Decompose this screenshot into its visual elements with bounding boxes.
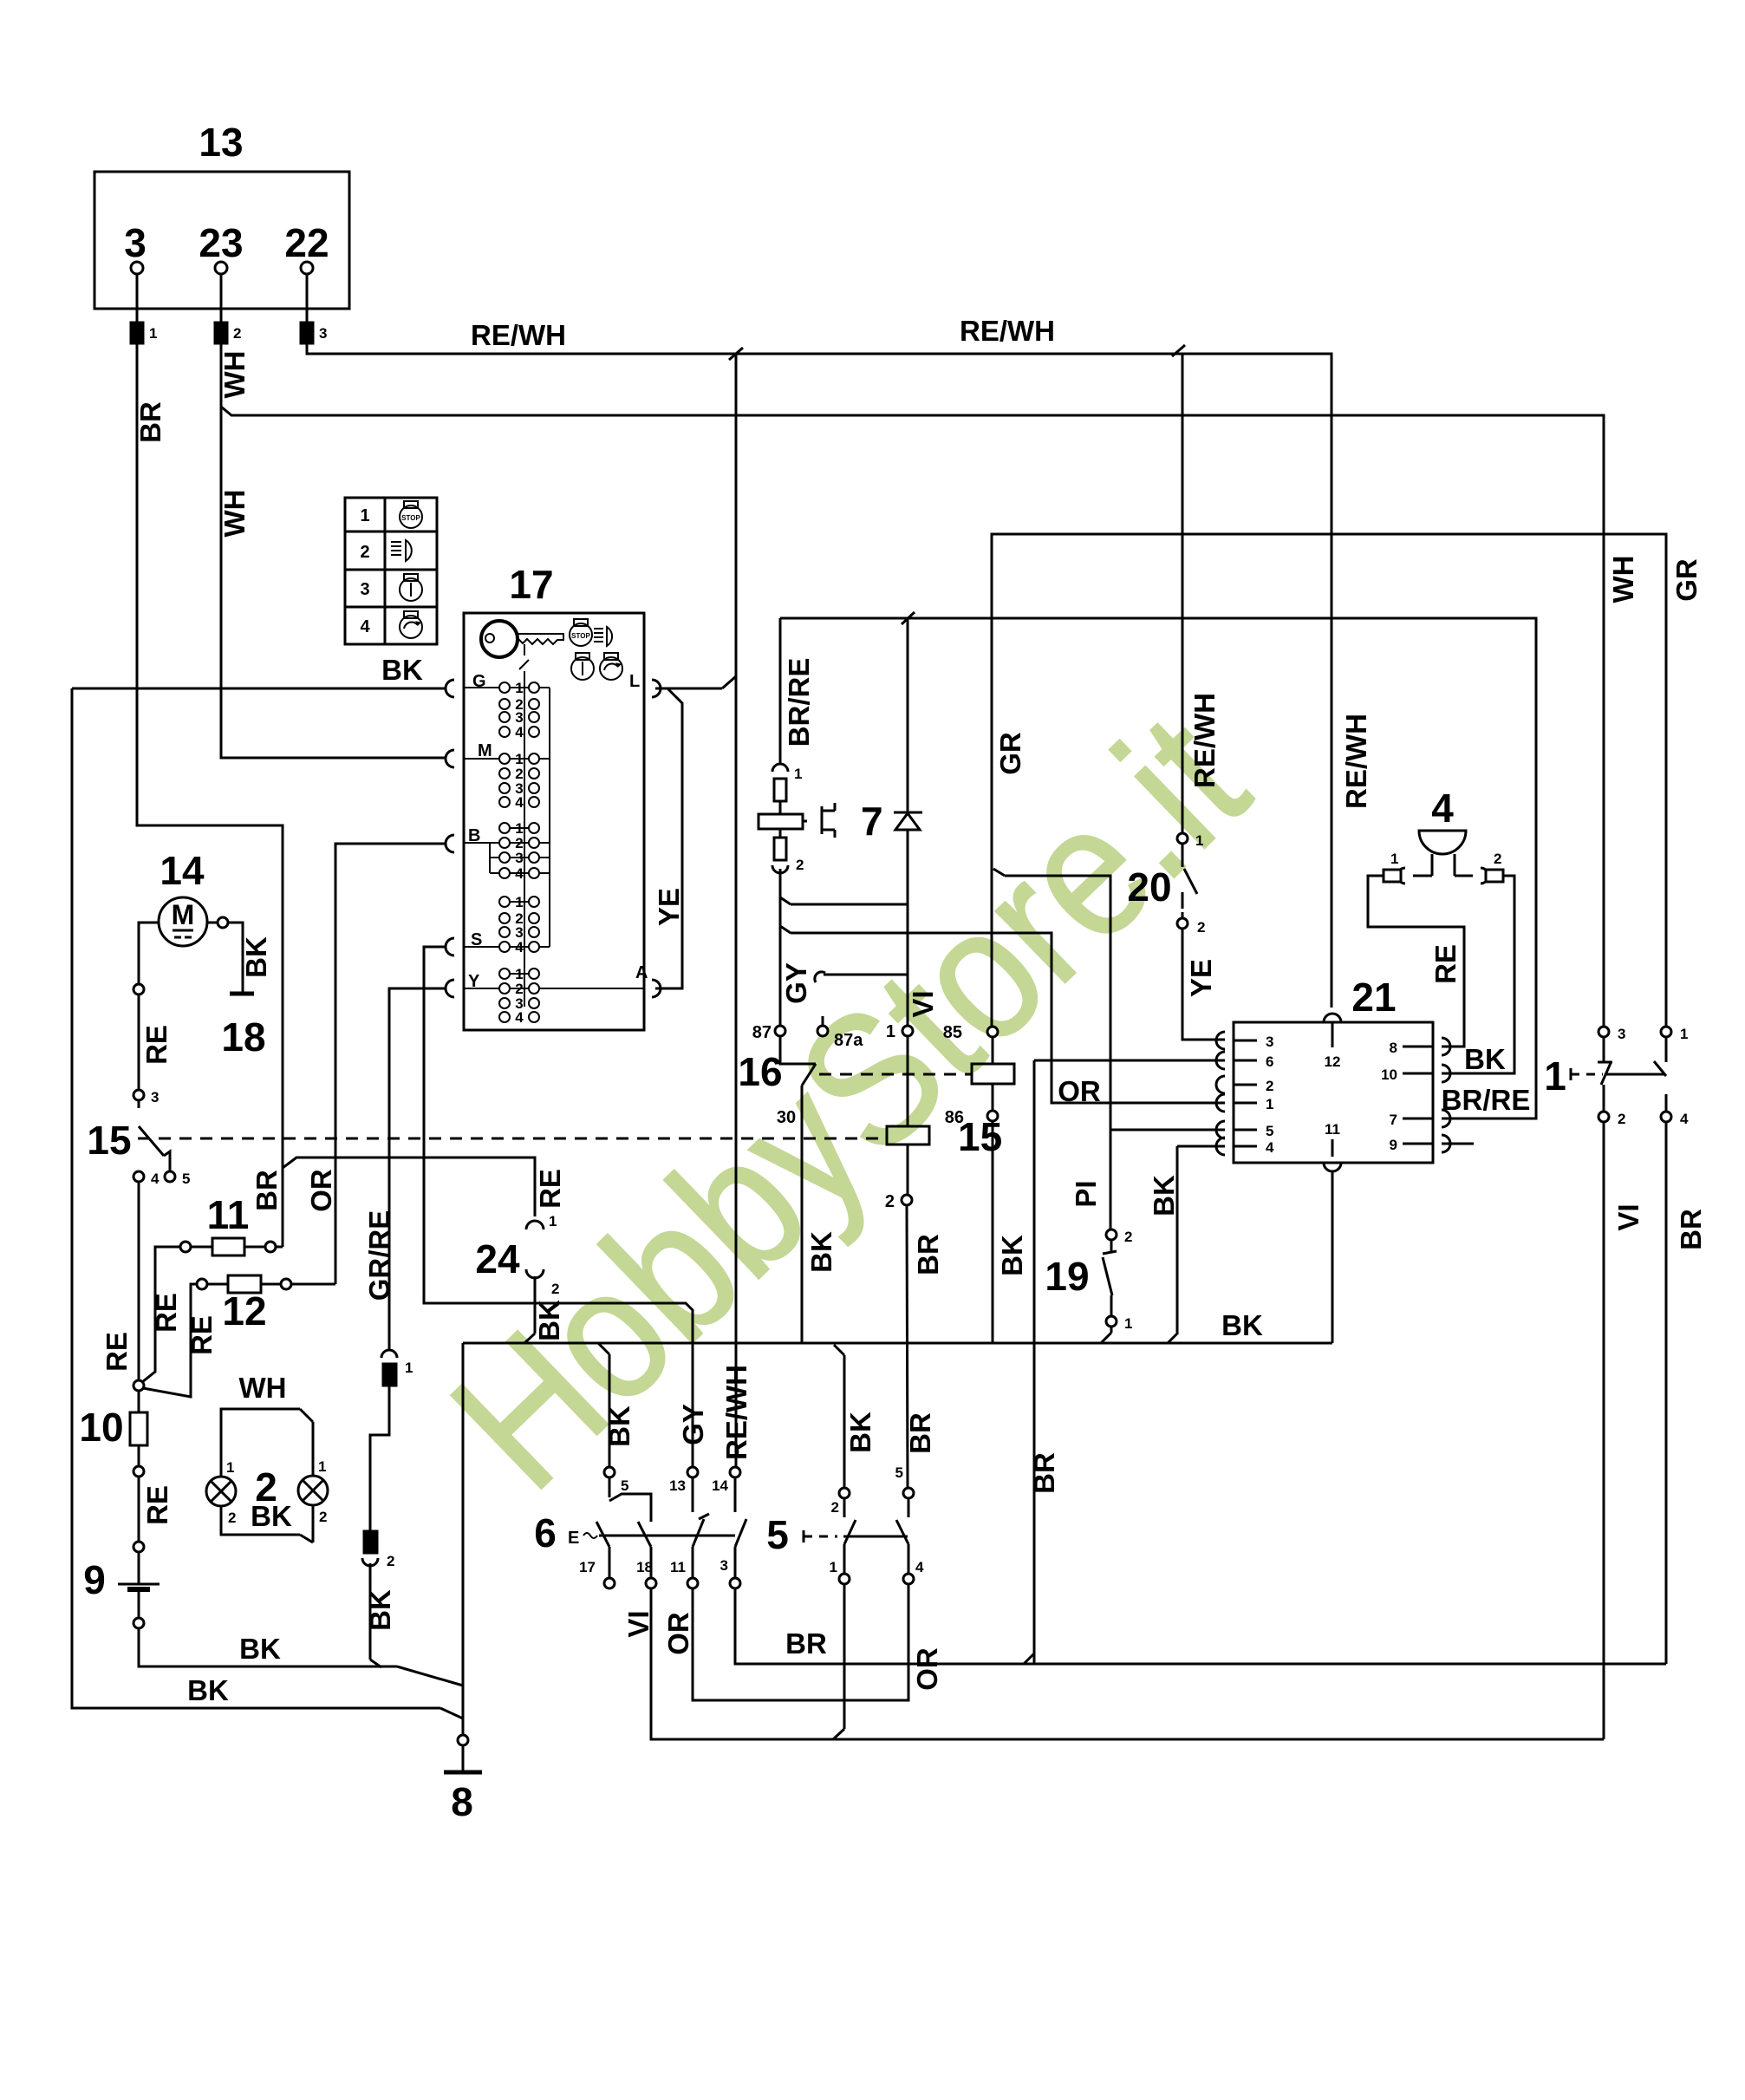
svg-text:2: 2 xyxy=(228,1510,236,1526)
wire GY from relay 7 pin 2 to relay 16 terminal 87 xyxy=(780,869,812,1026)
svg-text:2: 2 xyxy=(1124,1229,1132,1245)
wire BR/RE vertical to relay 7 pin 1 xyxy=(779,618,782,764)
legend icon row 3 oil lamp xyxy=(400,574,422,601)
wire BK from connector 2 to ground bus xyxy=(364,1563,396,1667)
relay 7 coil xyxy=(759,799,883,844)
svg-text:RE/WH: RE/WH xyxy=(1340,714,1372,809)
svg-text:1: 1 xyxy=(794,766,802,782)
svg-text:10: 10 xyxy=(1381,1066,1397,1083)
wire BK branch to switch 6 pin 5 xyxy=(598,1343,635,1467)
svg-text:1: 1 xyxy=(149,325,157,342)
pin 22 of 13 xyxy=(301,262,327,343)
box 21 pin 9 stub xyxy=(1442,1143,1474,1145)
diode xyxy=(894,612,922,830)
svg-text:BK: BK xyxy=(381,654,423,686)
svg-text:WH: WH xyxy=(239,1372,287,1404)
pin 23 of 13 xyxy=(215,262,241,343)
svg-text:11: 11 xyxy=(670,1559,686,1575)
legend box xyxy=(345,498,437,644)
wire RE from motor to switch 15 pin 3 xyxy=(133,923,173,1090)
svg-text:5: 5 xyxy=(766,1512,789,1557)
wire OR from B row to fuse 12 xyxy=(305,844,446,1284)
wire WH branch to switch 1 pin 3 xyxy=(221,407,1639,1027)
wire RE/WH main from pin 3 of 13 to box 21 xyxy=(307,315,1372,1008)
wire branch to diode bottom xyxy=(780,830,908,904)
svg-text:6: 6 xyxy=(1266,1053,1273,1070)
box 17 lamp icons xyxy=(570,619,640,691)
svg-text:30: 30 xyxy=(777,1108,796,1127)
svg-text:OR: OR xyxy=(305,1169,337,1212)
svg-text:BR: BR xyxy=(1028,1452,1060,1494)
relay 7 pin 1 connector xyxy=(772,764,802,814)
svg-text:BR: BR xyxy=(134,401,166,443)
svg-text:15: 15 xyxy=(87,1118,131,1163)
wire BR from relay 15 terminal 2 to switch 5 xyxy=(904,1205,944,1488)
box 21 bottom connector 11 xyxy=(1324,1121,1341,1343)
svg-text:3: 3 xyxy=(360,580,369,599)
svg-text:1: 1 xyxy=(886,1022,895,1041)
svg-text:1: 1 xyxy=(405,1360,413,1376)
svg-text:4: 4 xyxy=(1680,1111,1689,1127)
svg-text:BK: BK xyxy=(533,1300,565,1341)
wire RE from fuse 10 to battery 9 xyxy=(133,1445,173,1583)
svg-text:BK: BK xyxy=(1221,1309,1263,1341)
svg-text:11: 11 xyxy=(207,1192,250,1237)
svg-text:GR: GR xyxy=(994,732,1026,775)
svg-text:OR: OR xyxy=(1058,1075,1101,1107)
relay 7 pin 2 connector xyxy=(772,829,804,873)
wire BK branch to switch 5 pin 2 xyxy=(834,1345,876,1488)
svg-text:BR: BR xyxy=(1675,1209,1707,1250)
horn 4 pin 1 connector xyxy=(1384,851,1432,884)
svg-text:85: 85 xyxy=(943,1023,962,1042)
svg-text:4: 4 xyxy=(515,724,524,740)
svg-text:1: 1 xyxy=(318,1458,326,1475)
control unit box 21 xyxy=(1234,975,1433,1163)
wire BR/RE bus from relay 7 to box 21 pin 7 xyxy=(780,618,1536,1118)
wire BK from box 21 pin 4 to bus xyxy=(1148,1146,1225,1343)
fuse 12 xyxy=(197,1275,335,1334)
svg-text:2: 2 xyxy=(1618,1111,1625,1127)
switch 5 pole 2-1 xyxy=(830,1488,856,1584)
wire from S row to switch 6 pin 13 xyxy=(424,947,709,1467)
box 17 pin circles xyxy=(499,680,539,1026)
relay 16 switch arm xyxy=(738,1036,837,1343)
wire BK from motor to ground 18 xyxy=(207,917,272,992)
legend icon row 4 charge lamp xyxy=(400,611,422,638)
box 21 top connector 12 xyxy=(1324,1014,1341,1070)
svg-text:BK: BK xyxy=(239,1633,281,1665)
svg-text:BK: BK xyxy=(805,1231,837,1273)
svg-text:6: 6 xyxy=(534,1510,557,1555)
fuse 10 xyxy=(79,1405,147,1450)
svg-text:VI: VI xyxy=(1612,1203,1644,1230)
legend icon row 2 headlight xyxy=(391,540,412,561)
svg-text:14: 14 xyxy=(712,1477,728,1494)
svg-text:3: 3 xyxy=(319,325,327,342)
key switch box 17 xyxy=(464,562,644,1030)
svg-text:WH: WH xyxy=(218,490,251,538)
svg-text:1: 1 xyxy=(1124,1315,1132,1332)
switch 20 xyxy=(1127,832,1205,936)
svg-text:18: 18 xyxy=(636,1559,653,1575)
svg-text:13: 13 xyxy=(199,120,243,165)
svg-text:17: 17 xyxy=(509,562,553,607)
svg-text:4: 4 xyxy=(1431,786,1454,831)
svg-text:GR: GR xyxy=(1670,558,1703,602)
svg-text:4: 4 xyxy=(360,617,370,636)
svg-text:RE/WH: RE/WH xyxy=(471,319,566,351)
svg-text:17: 17 xyxy=(579,1559,596,1575)
wire VI from diode to relay 15 terminal 1 xyxy=(907,904,939,1026)
wire OR from switch 6 pin 11 to switch 5 pin 4 xyxy=(662,1584,943,1700)
svg-text:12: 12 xyxy=(222,1288,266,1334)
svg-text:87: 87 xyxy=(752,1023,772,1042)
box 17 left edge connector arcs xyxy=(446,680,454,997)
lamp 2 right bulb xyxy=(255,1458,328,1525)
relay 16 terminal 87 xyxy=(752,1023,785,1042)
wire RE/WH branch to switch 20 xyxy=(1172,345,1221,833)
svg-text:3: 3 xyxy=(1266,1034,1273,1050)
svg-text:GY: GY xyxy=(677,1404,709,1445)
svg-text:YE: YE xyxy=(653,888,685,926)
svg-text:19: 19 xyxy=(1045,1254,1089,1299)
svg-text:2: 2 xyxy=(796,857,804,873)
legend icon row 1 engine stop lamp xyxy=(400,501,422,528)
svg-text:VI: VI xyxy=(622,1610,654,1637)
svg-text:RE: RE xyxy=(140,1025,173,1065)
svg-text:1: 1 xyxy=(830,1559,837,1575)
svg-text:12: 12 xyxy=(1325,1053,1341,1070)
svg-text:15: 15 xyxy=(958,1114,1002,1159)
svg-text:RE: RE xyxy=(186,1315,218,1355)
svg-text:22: 22 xyxy=(284,220,329,265)
svg-text:3: 3 xyxy=(720,1557,728,1574)
svg-text:1: 1 xyxy=(1195,832,1203,849)
wire BK bus to box 21 pin 11 xyxy=(463,1309,1332,1343)
wire link 87a row to V line xyxy=(815,972,908,982)
svg-text:87a: 87a xyxy=(834,1031,863,1050)
svg-text:BR/RE: BR/RE xyxy=(1442,1084,1531,1116)
horn 4 pin 2 connector xyxy=(1455,851,1503,884)
ground 8 xyxy=(444,1343,482,1824)
wire YE from switch 20 to box 21 pin 3 xyxy=(1182,929,1225,1040)
box 21 left pins 3 6 2 1 5 4 xyxy=(1216,1032,1274,1156)
switch 6 pole 13-11 xyxy=(669,1467,709,1588)
svg-text:5: 5 xyxy=(182,1171,190,1187)
box 21 right pins 8 10 7 9 xyxy=(1381,1038,1450,1153)
wire RE from junction to fuse 11 xyxy=(142,1247,182,1382)
wire RE from junction to fuse 12 xyxy=(143,1284,218,1397)
svg-text:18: 18 xyxy=(221,1014,265,1060)
svg-text:5: 5 xyxy=(1266,1123,1273,1139)
svg-text:BK: BK xyxy=(187,1674,229,1706)
wire BK from connector 1 to connector 2 xyxy=(370,1386,389,1531)
svg-text:1: 1 xyxy=(1266,1096,1273,1112)
connector block 13 xyxy=(94,120,349,309)
svg-text:7: 7 xyxy=(1390,1112,1397,1128)
svg-text:2: 2 xyxy=(831,1499,839,1516)
wire OR from relay 7 pin 2 branch to box 21 pin 1 xyxy=(780,926,1225,1107)
svg-text:23: 23 xyxy=(199,220,243,265)
connector 24 xyxy=(475,1213,559,1297)
svg-text:RE: RE xyxy=(141,1485,173,1525)
svg-text:E: E xyxy=(568,1529,579,1548)
svg-text:BR: BR xyxy=(904,1412,936,1454)
dashed link of relay 15 xyxy=(138,1138,886,1140)
svg-text:2: 2 xyxy=(233,325,241,342)
svg-text:PI: PI xyxy=(1070,1180,1102,1207)
svg-text:3: 3 xyxy=(151,1089,159,1105)
svg-text:4: 4 xyxy=(151,1171,160,1187)
svg-text:STOP: STOP xyxy=(571,632,590,640)
svg-text:1: 1 xyxy=(1544,1053,1566,1099)
switch 6 pole 18 xyxy=(636,1522,656,1588)
svg-text:BR: BR xyxy=(785,1627,827,1660)
motor 14 xyxy=(159,848,207,946)
wire BR from pin 1 of 13 down to fuse 11 xyxy=(134,343,283,1247)
switch 6 pole 17-5 xyxy=(579,1467,651,1588)
watermark HobbyStore.it xyxy=(413,675,1285,1528)
wire VI from switch 6 pin 18 to bus xyxy=(622,1588,1604,1739)
svg-text:RE: RE xyxy=(534,1169,566,1209)
wire BR from box 21 pin 6 corner down to BR bus xyxy=(1028,1060,1225,1664)
svg-text:OR: OR xyxy=(662,1612,694,1655)
svg-text:BK: BK xyxy=(1464,1043,1506,1075)
wire VI from switch 1 pin 2 xyxy=(1604,1122,1644,1739)
svg-text:OR: OR xyxy=(911,1647,943,1691)
wire PI from GR branch to switch 19 pin 2 and box 21 pin 5 xyxy=(993,869,1225,1229)
svg-text:1: 1 xyxy=(226,1459,234,1476)
svg-text:BK: BK xyxy=(844,1412,876,1453)
relay 15 coil xyxy=(885,1022,1002,1211)
wire YE from L arc to A arc xyxy=(653,676,736,988)
wire GR/RE from Y row to lamp connectors xyxy=(363,988,446,1350)
wire BK from battery to ground bus xyxy=(133,1592,463,1686)
svg-text:10: 10 xyxy=(79,1405,123,1450)
svg-text:VI: VI xyxy=(907,990,939,1017)
svg-text:BR/RE: BR/RE xyxy=(783,658,815,747)
wire GR from corner to switch 1 pin 1 xyxy=(992,534,1703,1027)
svg-text:RE: RE xyxy=(1429,944,1462,984)
svg-text:4: 4 xyxy=(915,1559,924,1575)
relay 16 terminal 87a xyxy=(817,1016,863,1050)
svg-text:M: M xyxy=(478,741,492,760)
wire WH between lamp tops xyxy=(221,1372,313,1477)
switch 19 xyxy=(1045,1229,1132,1343)
svg-text:BK: BK xyxy=(364,1589,396,1631)
svg-text:9: 9 xyxy=(83,1557,106,1602)
svg-text:GR/RE: GR/RE xyxy=(363,1210,395,1301)
svg-text:4: 4 xyxy=(515,1009,524,1026)
wire BR from switch 5 pin 1 to VI bus xyxy=(785,1584,844,1739)
wire BK from connector 24 to bus xyxy=(524,1276,565,1343)
svg-text:GY: GY xyxy=(780,962,812,1004)
svg-text:8: 8 xyxy=(1390,1040,1397,1056)
pin 3 of 13 xyxy=(131,262,157,343)
wire BR bus from switch 6 pin 3 to switch 1 pin 4 xyxy=(735,1588,1666,1664)
wire BK from horn pin 2 to box 21 pin 10 xyxy=(1442,876,1514,1075)
wire RE from junction to fuse 10 xyxy=(101,1332,139,1412)
svg-text:2: 2 xyxy=(319,1509,327,1525)
relay 16 coil xyxy=(819,1023,1014,1127)
svg-text:2: 2 xyxy=(1266,1078,1273,1094)
box 17 pin grid xyxy=(468,672,492,991)
svg-text:7: 7 xyxy=(861,799,883,844)
svg-text:L: L xyxy=(629,672,640,691)
svg-text:BK: BK xyxy=(240,936,272,978)
wire BK left loop bottom xyxy=(72,688,463,1718)
wire RE branch to connector 24 xyxy=(283,1158,566,1216)
connector 1 on GR/RE wire xyxy=(381,1350,413,1386)
svg-text:RE/WH: RE/WH xyxy=(720,1365,752,1460)
svg-text:8: 8 xyxy=(451,1779,473,1824)
svg-text:20: 20 xyxy=(1127,864,1171,910)
svg-text:2: 2 xyxy=(360,543,369,562)
svg-text:BK: BK xyxy=(251,1500,292,1532)
battery 9 xyxy=(83,1557,160,1602)
svg-text:2: 2 xyxy=(551,1281,559,1297)
connector 2 on lamp BK wire xyxy=(362,1531,394,1569)
svg-text:BK: BK xyxy=(603,1405,635,1447)
wire RE from switch 15 pin 4 to junction xyxy=(133,1182,144,1391)
svg-text:BR: BR xyxy=(251,1170,283,1211)
svg-text:16: 16 xyxy=(738,1049,782,1094)
svg-text:RE: RE xyxy=(150,1293,182,1333)
svg-text:4: 4 xyxy=(1266,1139,1274,1156)
svg-text:2: 2 xyxy=(1197,919,1205,936)
svg-text:STOP: STOP xyxy=(401,514,420,522)
svg-text:1: 1 xyxy=(360,506,369,525)
wire WH from pin 2 of 13 to M row of 17 xyxy=(218,343,446,758)
svg-text:11: 11 xyxy=(1325,1121,1340,1138)
svg-text:BK: BK xyxy=(996,1235,1028,1276)
svg-text:RE/WH: RE/WH xyxy=(1188,693,1221,788)
svg-text:2: 2 xyxy=(1494,851,1501,867)
wire BK between lamp bottoms xyxy=(221,1500,313,1542)
svg-text:M: M xyxy=(172,899,195,930)
svg-text:21: 21 xyxy=(1351,975,1396,1020)
switch 1 xyxy=(1544,1026,1689,1127)
wire BK from left loop to G row xyxy=(72,654,446,688)
svg-text:RE/WH: RE/WH xyxy=(960,315,1055,347)
svg-text:WH: WH xyxy=(218,351,251,399)
wire BK below relay 16 coil xyxy=(993,1121,1028,1343)
key symbol xyxy=(481,621,563,1007)
svg-text:2: 2 xyxy=(387,1553,394,1569)
box 17 right edge connector arcs L and A xyxy=(635,680,661,997)
switch 5 pole 5-4 xyxy=(895,1464,924,1584)
svg-text:3: 3 xyxy=(124,220,147,265)
svg-text:BK: BK xyxy=(1148,1175,1180,1216)
svg-text:4: 4 xyxy=(515,794,524,811)
switch 6 xyxy=(534,1510,735,1555)
svg-text:14: 14 xyxy=(160,848,205,893)
lamp 2 left bulb xyxy=(206,1459,236,1526)
svg-text:1: 1 xyxy=(549,1213,557,1229)
svg-text:WH: WH xyxy=(1607,556,1639,603)
wire RE/WH branch to switch 6 pin 14 xyxy=(720,348,752,1467)
horn 4 xyxy=(1419,786,1466,876)
svg-text:BR: BR xyxy=(912,1234,944,1275)
wire RE from horn pin 1 to box 21 pin 8 xyxy=(1368,876,1464,1047)
switch 15 xyxy=(87,1089,190,1187)
ground 18 xyxy=(221,994,265,1060)
wire BR from switch 1 pin 4 xyxy=(1666,1122,1707,1664)
svg-text:13: 13 xyxy=(669,1477,686,1494)
svg-text:5: 5 xyxy=(621,1477,628,1494)
svg-text:5: 5 xyxy=(895,1464,903,1481)
svg-text:1: 1 xyxy=(1680,1026,1688,1042)
svg-text:RE: RE xyxy=(101,1332,133,1372)
svg-text:2: 2 xyxy=(885,1192,895,1211)
svg-text:A: A xyxy=(635,963,648,982)
svg-text:9: 9 xyxy=(1390,1137,1397,1153)
svg-text:3: 3 xyxy=(1618,1026,1625,1042)
svg-text:1: 1 xyxy=(1390,851,1398,867)
switch 6 pole 14-3 xyxy=(712,1467,746,1588)
svg-text:24: 24 xyxy=(475,1236,520,1282)
svg-text:YE: YE xyxy=(1185,959,1217,997)
wire GR vertical to relay 16 terminal 85 xyxy=(992,534,1026,1027)
fuse 11 xyxy=(180,1192,283,1255)
switch 5 xyxy=(766,1512,908,1557)
